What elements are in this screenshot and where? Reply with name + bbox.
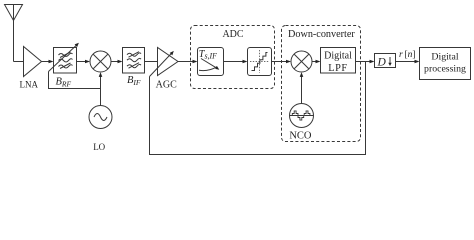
svg-text:[n]: [n] <box>405 50 416 60</box>
feedback wire from decimator input to AGC control <box>150 62 366 155</box>
sampler T_s,IF <box>198 48 224 76</box>
decimator D block <box>375 54 396 69</box>
tuning arrow of B_RF <box>49 43 79 72</box>
wire LO to B_RF tuning control <box>49 72 101 89</box>
wire LO to mixer M1 <box>99 72 103 105</box>
svg-text:Digital: Digital <box>431 52 458 63</box>
amplifier LNA <box>20 47 42 90</box>
oscillator NCO <box>289 104 313 142</box>
svg-text:Down-converter: Down-converter <box>288 29 355 40</box>
Digital LPF block <box>321 48 356 74</box>
wire mixer M1 to B_IF <box>111 60 123 64</box>
svg-text:ADC: ADC <box>222 29 243 40</box>
wire LNA to B_RF <box>42 60 54 64</box>
oscillator LO <box>89 106 112 152</box>
wire B_IF to AGC <box>145 61 158 63</box>
svg-text:D: D <box>377 57 387 69</box>
wire B_RF to mixer M1 <box>77 60 91 64</box>
quantizer <box>248 48 272 76</box>
wire D to digital processing, node r[n] <box>396 50 420 63</box>
filter B_IF (bandpass) <box>123 48 145 87</box>
wire quantizer to mixer M2 <box>272 60 292 64</box>
gain-control arrow of AGC <box>150 51 174 77</box>
amplifier AGC (variable gain) <box>156 48 178 91</box>
wire mixer M2 to LPF <box>312 60 321 64</box>
svg-text:processing: processing <box>424 64 466 75</box>
svg-text:LPF: LPF <box>328 63 348 74</box>
wire AGC to sampler <box>178 60 198 64</box>
svg-text:AGC: AGC <box>156 80 177 91</box>
wire NCO to mixer M2 <box>300 72 304 103</box>
svg-text:Digital: Digital <box>324 51 352 62</box>
ADC dashed box <box>191 26 275 89</box>
Digital processing block <box>420 48 471 80</box>
mixer M1 <box>90 51 111 72</box>
svg-text:r: r <box>399 50 403 60</box>
wire sampler to quantizer <box>224 60 248 64</box>
Down-converter dashed box <box>282 26 361 142</box>
svg-text:LO: LO <box>93 142 105 152</box>
antenna <box>5 5 23 62</box>
wire antenna to LNA <box>14 61 24 63</box>
mixer M2 <box>291 51 312 72</box>
filter B_RF (tunable bandpass) <box>54 48 77 89</box>
wire LPF to decimator D, feedback tap node <box>356 60 375 64</box>
svg-text:LNA: LNA <box>20 79 39 89</box>
svg-text:NCO: NCO <box>289 131 312 142</box>
